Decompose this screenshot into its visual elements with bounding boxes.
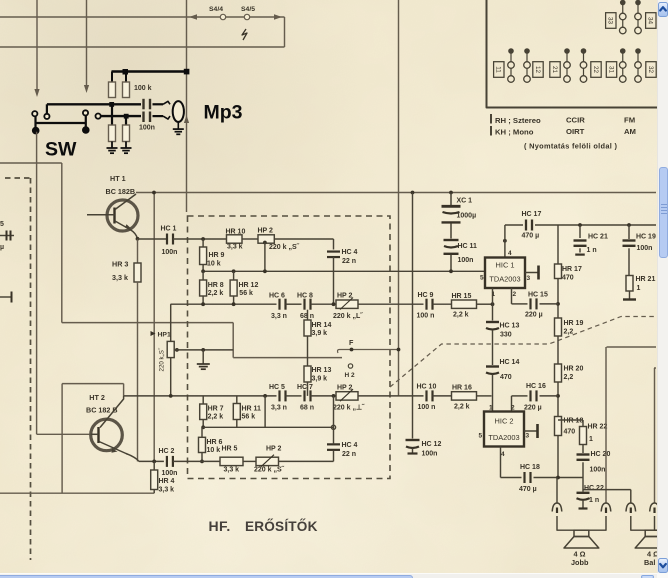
svg-text:HC 10: HC 10 [417,384,437,391]
svg-text:SW: SW [45,139,77,161]
svg-text:HC 20: HC 20 [591,451,611,458]
svg-text:HR 14: HR 14 [312,322,332,329]
svg-text:2,2 k: 2,2 k [454,404,470,411]
svg-text:11: 11 [495,66,502,73]
svg-text:HR 7: HR 7 [208,406,224,413]
svg-text:5: 5 [480,275,484,282]
svg-text:470: 470 [500,374,512,381]
svg-text:HF.: HF. [209,518,231,534]
svg-text:HC 21: HC 21 [588,234,608,241]
svg-text:HIC 2: HIC 2 [495,417,514,426]
svg-text:HC 15: HC 15 [528,292,548,299]
svg-text:Bal: Bal [644,558,655,567]
svg-text:HR 21: HR 21 [636,276,656,283]
svg-text:HR 3: HR 3 [112,260,128,269]
svg-text:HC 18: HC 18 [520,464,540,471]
svg-text:100n: 100n [162,249,178,256]
svg-text:220 µ: 220 µ [524,405,542,412]
svg-text:3,3 n: 3,3 n [271,405,287,412]
svg-text:HP 2: HP 2 [337,385,353,392]
svg-text:HR 15: HR 15 [452,293,472,300]
svg-text:470: 470 [562,275,574,282]
svg-text:33: 33 [607,17,614,25]
svg-text:100n: 100n [139,125,155,132]
svg-text:21: 21 [551,66,558,74]
svg-text:3,9 k: 3,9 k [312,330,328,337]
svg-text:4: 4 [508,250,512,257]
svg-text:HC 11: HC 11 [458,243,478,250]
svg-text:HT 1: HT 1 [110,174,126,183]
svg-text:22 n: 22 n [342,258,356,265]
svg-text:10 k: 10 k [207,261,221,268]
svg-text:OIRT: OIRT [566,127,585,136]
svg-text:HR 9: HR 9 [209,252,225,259]
svg-text:HR 10: HR 10 [226,229,246,236]
svg-text:HR 4: HR 4 [159,478,175,485]
svg-text:AM: AM [624,127,636,136]
svg-text:4: 4 [501,451,505,458]
svg-text:CCIR: CCIR [566,116,585,125]
svg-text:HP1: HP1 [158,332,171,339]
svg-text:HC 12: HC 12 [422,441,442,448]
svg-text:HR 13: HR 13 [312,367,332,374]
svg-text:2,2 k: 2,2 k [453,312,469,319]
svg-text:3,3 k: 3,3 k [227,244,243,251]
svg-text:2,2 k: 2,2 k [208,414,224,421]
svg-text:34: 34 [647,17,654,25]
svg-text:HR 19: HR 19 [564,320,584,327]
svg-text:100 n: 100 n [417,313,435,320]
svg-text:220 k „S˝: 220 k „S˝ [254,467,285,474]
svg-text:KH ; Mono: KH ; Mono [495,128,534,137]
svg-text:220 k„S˝: 220 k„S˝ [159,347,166,371]
svg-text:330: 330 [500,332,512,339]
svg-text:HC 4: HC 4 [342,249,358,256]
svg-text:HC 17: HC 17 [522,211,542,218]
svg-text:220 µ: 220 µ [525,312,543,319]
svg-text:HR 8: HR 8 [208,282,224,289]
svg-text:HIC 1: HIC 1 [496,261,515,270]
svg-text:HP 2: HP 2 [337,293,353,300]
svg-text:1 n: 1 n [589,497,599,504]
svg-text:HC 2: HC 2 [159,448,175,455]
svg-text:68 n: 68 n [300,405,314,412]
svg-text:H 2: H 2 [345,372,356,379]
svg-text:3: 3 [527,275,531,282]
svg-text:10 k: 10 k [207,447,221,454]
svg-text:HP 2: HP 2 [258,228,274,235]
svg-text:ERŐSÍTŐK: ERŐSÍTŐK [245,519,318,534]
svg-text:31: 31 [607,66,614,74]
svg-text:HR 11: HR 11 [242,406,262,413]
svg-text:100 n: 100 n [418,404,436,411]
svg-text:100 k: 100 k [134,85,152,92]
svg-text:56 k: 56 k [242,414,256,421]
svg-text:RH ; Sztereo: RH ; Sztereo [495,116,541,125]
svg-text:HP 2: HP 2 [266,446,282,453]
svg-text:1000µ: 1000µ [457,213,477,220]
svg-text:12: 12 [534,66,541,74]
svg-text:HC 9: HC 9 [418,292,434,299]
svg-text:100n: 100n [162,470,178,477]
svg-text:( Nyomtatás felöli oldal ): ( Nyomtatás felöli oldal ) [524,142,617,151]
svg-text:22: 22 [592,66,599,74]
svg-text:3,3 k: 3,3 k [112,273,128,282]
svg-text:HR 18: HR 18 [564,418,584,425]
svg-text:3,3 k: 3,3 k [224,467,240,474]
svg-text:56 k: 56 k [239,290,253,297]
svg-text:HC 5: HC 5 [269,384,285,391]
svg-text:5: 5 [479,433,483,440]
svg-text:220 k „⊥˝: 220 k „⊥˝ [333,404,365,412]
svg-text:1: 1 [637,285,641,292]
svg-text:µ: µ [0,244,4,251]
svg-text:BC 182B: BC 182B [106,187,136,196]
svg-text:220 k „L˝: 220 k „L˝ [333,313,363,320]
svg-text:3,3 k: 3,3 k [159,487,175,494]
svg-text:470: 470 [564,429,576,436]
svg-text:2,2 k: 2,2 k [208,290,224,297]
svg-text:F: F [349,338,354,347]
svg-text:HC 22: HC 22 [584,485,604,492]
svg-text:2,2: 2,2 [564,329,574,336]
svg-text:32: 32 [647,66,654,74]
svg-text:HR 17: HR 17 [562,266,582,273]
svg-text:3,3 n: 3,3 n [271,313,287,320]
svg-text:22 n: 22 n [342,451,356,458]
svg-text:HR 22: HR 22 [588,424,608,431]
svg-text:FM: FM [624,116,635,125]
svg-text:HC 16: HC 16 [526,383,546,390]
svg-text:HC 6: HC 6 [269,293,285,300]
svg-text:Jobb: Jobb [571,558,589,567]
svg-text:Mp3: Mp3 [204,102,243,124]
svg-text:HC 4: HC 4 [342,442,358,449]
svg-text:220 k „S˝: 220 k „S˝ [269,244,300,251]
svg-text:470 µ: 470 µ [522,233,540,240]
svg-text:HC 8: HC 8 [297,293,313,300]
svg-text:HC 7: HC 7 [297,384,313,391]
svg-text:HR 6: HR 6 [207,439,223,446]
svg-text:HC 1: HC 1 [161,226,177,233]
svg-text:1: 1 [589,436,593,443]
svg-text:100n: 100n [590,467,606,474]
svg-text:470 µ: 470 µ [519,486,537,493]
svg-text:HC 19: HC 19 [636,234,656,241]
svg-text:1: 1 [489,405,493,412]
svg-text:HR 16: HR 16 [452,385,472,392]
svg-text:HR 20: HR 20 [564,366,584,373]
svg-text:1 n: 1 n [587,247,597,254]
svg-text:HT 2: HT 2 [89,393,105,402]
svg-text:2: 2 [513,291,517,298]
svg-text:HR 5: HR 5 [222,446,238,453]
svg-text:TDA2003: TDA2003 [489,275,520,284]
svg-text:2,2: 2,2 [564,374,574,381]
svg-text:S4/5: S4/5 [241,6,255,13]
svg-text:XC 1: XC 1 [457,198,473,205]
svg-text:100n: 100n [422,451,438,458]
svg-text:HC 13: HC 13 [500,323,520,330]
svg-text:100n: 100n [458,257,474,264]
svg-text:HC 14: HC 14 [500,359,520,366]
svg-text:3,9 k: 3,9 k [312,376,328,383]
svg-text:5: 5 [0,221,4,228]
svg-text:TDA2003: TDA2003 [488,433,519,442]
svg-text:HR 12: HR 12 [239,282,259,289]
svg-text:100n: 100n [637,245,653,252]
svg-text:2: 2 [511,405,515,412]
svg-text:S4/4: S4/4 [209,6,223,13]
svg-text:3: 3 [526,433,530,440]
